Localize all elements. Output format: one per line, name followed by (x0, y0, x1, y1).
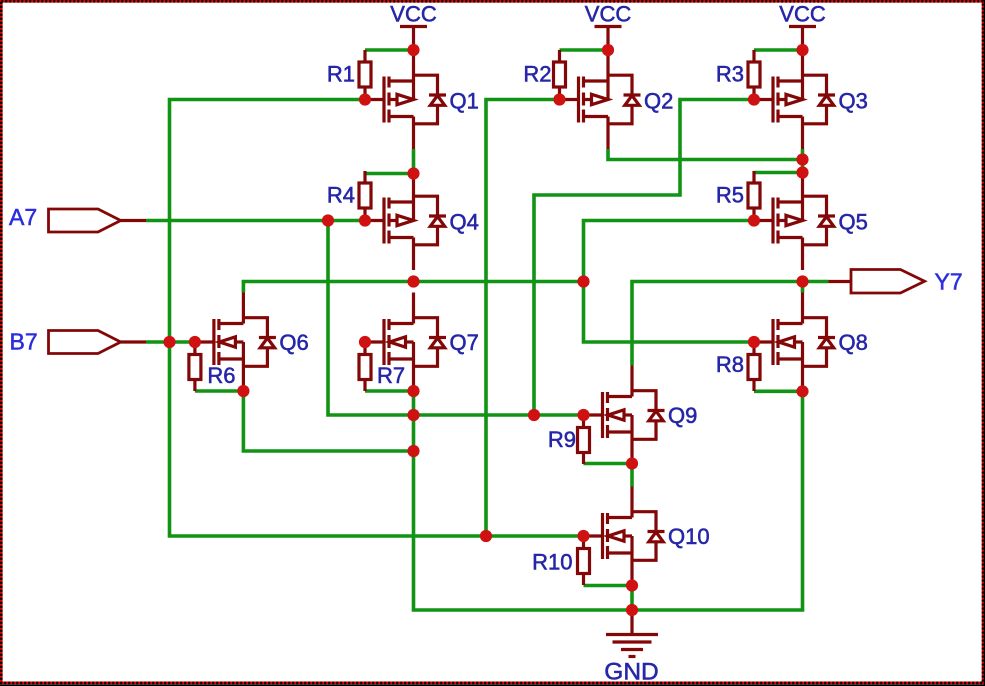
svg-text:Q1: Q1 (450, 89, 479, 114)
svg-text:GND: GND (604, 659, 658, 686)
svg-text:R6: R6 (207, 363, 235, 388)
svg-text:Q9: Q9 (668, 403, 697, 428)
svg-text:Q3: Q3 (839, 89, 868, 114)
svg-text:R2: R2 (523, 62, 551, 87)
svg-text:A7: A7 (9, 204, 37, 230)
svg-text:B7: B7 (10, 329, 38, 355)
svg-text:R5: R5 (716, 183, 744, 208)
svg-text:VCC: VCC (390, 2, 437, 27)
svg-text:Q5: Q5 (839, 210, 868, 235)
svg-text:R3: R3 (716, 62, 744, 87)
svg-text:Q8: Q8 (839, 330, 868, 355)
svg-text:Q2: Q2 (644, 89, 673, 114)
svg-text:VCC: VCC (779, 2, 826, 27)
svg-text:R8: R8 (716, 352, 744, 377)
svg-text:R1: R1 (327, 62, 355, 87)
svg-text:Q7: Q7 (450, 330, 479, 355)
svg-text:R7: R7 (377, 363, 405, 388)
svg-text:R10: R10 (532, 550, 572, 575)
svg-text:Q10: Q10 (668, 524, 710, 549)
svg-text:Q6: Q6 (279, 330, 308, 355)
svg-text:Y7: Y7 (935, 269, 963, 295)
svg-text:R9: R9 (548, 427, 576, 452)
svg-text:R4: R4 (327, 183, 355, 208)
svg-text:Q4: Q4 (450, 210, 479, 235)
svg-text:VCC: VCC (585, 2, 632, 27)
